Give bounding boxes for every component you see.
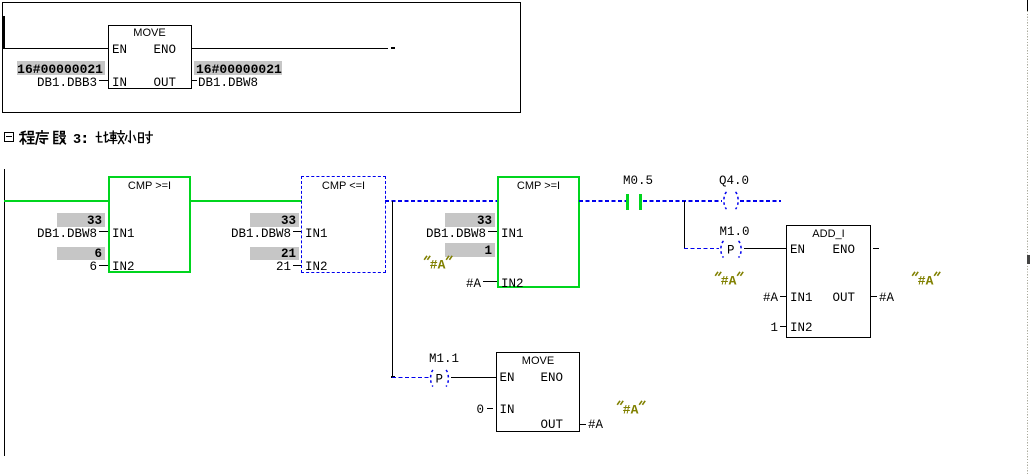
pin EN xyxy=(500,372,515,385)
value 1 highlighted xyxy=(445,243,495,257)
page break dotted line xyxy=(1027,11,1028,476)
operand 0 to IN xyxy=(455,404,484,417)
pin OUT xyxy=(140,77,176,90)
wire (P) to MOVE EN xyxy=(451,377,496,378)
bi xyxy=(96,132,108,142)
wire OUT to #A xyxy=(870,296,877,297)
operand 1 to IN2 xyxy=(747,322,778,335)
box MOVE U1 xyxy=(108,25,192,89)
value 33 highlighted xyxy=(445,213,495,227)
blue dashed rail contact to coil xyxy=(643,200,722,202)
comparator CMP >=I #1 (green, energized) xyxy=(108,176,191,273)
svg-text:P: P xyxy=(436,372,444,386)
wire ENO stub xyxy=(873,248,879,249)
wire to IN1 xyxy=(293,231,301,232)
value 33 highlighted xyxy=(57,213,105,227)
network 1 selection frame xyxy=(2,2,521,113)
svg-text:#A: #A xyxy=(430,257,446,272)
symbol info "#A" right (olive) xyxy=(911,270,942,288)
operand DB1.DBW8 xyxy=(198,77,258,90)
value 21 highlighted xyxy=(250,247,299,261)
value 6 highlighted xyxy=(57,247,105,261)
green rail to CMP box 1 xyxy=(4,200,108,202)
label MOVE title xyxy=(108,27,191,39)
comparator CMP >=I #3 (green, energized) xyxy=(497,176,580,288)
symbol info "#A" (olive) xyxy=(423,254,454,272)
network header collapse icon xyxy=(4,132,14,142)
M1.0 row: dashed wire from branch xyxy=(684,248,719,249)
box MOVE #2 xyxy=(496,352,580,432)
box ADD_I xyxy=(786,225,871,338)
wire OUT to #A xyxy=(579,424,586,425)
xiao xyxy=(125,131,135,142)
operand #A from OUT xyxy=(588,419,603,432)
network 1 left power rail xyxy=(3,16,5,49)
operand DB1.DBW8 xyxy=(194,228,291,241)
contact M0.5 label xyxy=(623,175,653,188)
row 3: dashed wire from branch to M1.1 xyxy=(392,377,430,378)
operand #A from OUT xyxy=(879,292,894,305)
pin IN1 xyxy=(790,292,813,305)
pin IN xyxy=(500,404,515,417)
svg-text:#A: #A xyxy=(917,273,933,288)
page break marker top xyxy=(1027,0,1028,11)
svg-text:#A: #A xyxy=(623,402,639,417)
operand #A xyxy=(420,278,481,291)
shi xyxy=(139,132,153,144)
wire (P) to ADD_I EN xyxy=(744,248,787,249)
operand DB1.DBW8 xyxy=(389,228,486,241)
network header title 程序段 3 : 比较小时 (SVG glyphs) xyxy=(19,130,159,147)
pin IN1 xyxy=(112,228,135,241)
pin IN xyxy=(112,77,127,90)
network 2 left power rail xyxy=(4,169,5,456)
pin IN2 xyxy=(112,261,135,274)
page break small mark xyxy=(1027,255,1030,264)
blue dashed rail CMP2 to CMP3 xyxy=(385,200,497,202)
coil Q4.0 (blue dashed parentheses) xyxy=(720,191,742,211)
wire: DB1.DBB3 to IN xyxy=(99,80,108,81)
wire corner foot xyxy=(391,376,395,378)
green rail CMP1 to CMP2 xyxy=(191,200,302,202)
symbol info "#A" left (olive) xyxy=(714,270,745,288)
wire to IN2 xyxy=(780,326,787,327)
value 16#00000021 (right, highlighted) xyxy=(194,61,282,75)
symbol info "#A" (olive) xyxy=(616,399,647,417)
pin ENO xyxy=(140,44,176,57)
wire to IN2 xyxy=(293,265,301,266)
pin EN xyxy=(112,44,127,57)
operand DB1.DBB3 xyxy=(0,77,97,90)
wire: OUT to DB1.DBW8 xyxy=(191,80,197,81)
xu xyxy=(36,131,48,145)
operand #A to IN1 xyxy=(747,292,778,305)
pin EN xyxy=(790,244,805,257)
value 16#00000021 (left, highlighted) xyxy=(17,61,105,75)
wire dot end xyxy=(391,47,395,49)
wire to IN2 xyxy=(99,265,108,266)
operand 21 xyxy=(194,261,291,274)
wire: MOVE ENO output rail xyxy=(191,48,388,49)
wire: power rail to MOVE EN xyxy=(5,48,109,49)
pin ENO xyxy=(527,372,563,385)
pin OUT xyxy=(527,419,563,432)
contact M1.1 (P) positive edge xyxy=(427,369,452,388)
blue dashed rail CMP3 to contact xyxy=(579,200,626,202)
branch wire down to M1.0 row xyxy=(684,201,685,249)
wire to IN1 xyxy=(780,296,787,297)
pin IN2 xyxy=(305,261,328,274)
comparator CMP <=I #2 (blue dashed) xyxy=(301,176,386,273)
contact M0.5 (green bars) xyxy=(626,194,629,210)
svg-text:#A: #A xyxy=(720,274,736,289)
pin IN1 xyxy=(305,228,328,241)
svg-text:P: P xyxy=(727,244,735,258)
jiao xyxy=(110,131,125,144)
pin IN2 xyxy=(790,322,813,335)
contact M1.0 label xyxy=(720,226,750,239)
pin IN1 xyxy=(501,228,524,241)
operand 6 xyxy=(0,261,97,274)
wire to IN1 xyxy=(488,231,497,232)
cheng xyxy=(20,132,35,145)
blue dashed rail after coil xyxy=(740,200,781,202)
svg-text:3: 3 xyxy=(73,133,81,147)
pin OUT xyxy=(820,292,855,305)
duan xyxy=(54,132,65,144)
wire to IN xyxy=(487,408,493,409)
value 33 highlighted xyxy=(250,213,299,227)
pin IN2 xyxy=(501,278,524,291)
pin ENO xyxy=(820,244,855,257)
contact M1.0 (P) positive edge xyxy=(717,240,745,259)
wire to IN2 xyxy=(483,281,497,282)
contact M1.1 label xyxy=(429,353,459,366)
coil Q4.0 label xyxy=(719,175,749,188)
wire to IN1 xyxy=(99,231,108,232)
branch wire down to row 3 xyxy=(392,201,393,377)
operand DB1.DBW8 xyxy=(0,228,97,241)
